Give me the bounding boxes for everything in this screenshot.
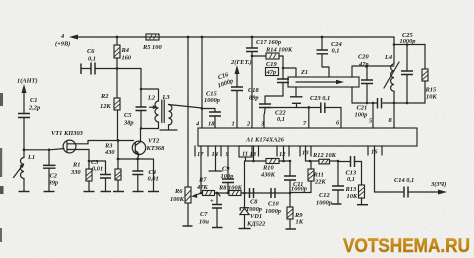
capacitor C13	[338, 156, 362, 183]
capacitor C14	[394, 177, 441, 198]
svg-text:3(3Ч): 3(3Ч)	[430, 181, 446, 188]
svg-text:1: 1	[232, 121, 235, 128]
svg-text:0,1: 0,1	[332, 48, 340, 55]
svg-text:100К: 100К	[170, 196, 185, 203]
wire: pin 17	[200, 146, 202, 193]
svg-text:C7: C7	[200, 211, 208, 218]
svg-text:VT2: VT2	[148, 138, 160, 145]
svg-text:89p: 89p	[249, 95, 259, 102]
wire: tank feed node	[117, 69, 158, 90]
node 4 (+9V) supply terminal	[55, 33, 78, 48]
capacitor C10	[265, 188, 281, 215]
svg-text:47К: 47К	[196, 184, 208, 191]
capacitor C2	[43, 150, 58, 192]
capacitor C16	[214, 70, 243, 128]
capacitor C18	[248, 87, 283, 128]
transistor VT1	[51, 130, 89, 153]
capacitor C24	[317, 37, 342, 77]
wire: pin 10	[305, 146, 307, 161]
potentiometer R6	[170, 187, 201, 226]
capacitor C17	[246, 37, 281, 128]
svg-text:R2: R2	[100, 93, 109, 100]
svg-text:C1: C1	[30, 97, 37, 104]
svg-text:1К: 1К	[296, 219, 304, 226]
svg-text:2,2p: 2,2p	[28, 105, 40, 112]
svg-text:47p: 47p	[266, 69, 277, 76]
resistor R5	[142, 34, 162, 51]
pin 11 box	[239, 146, 252, 161]
resistor R2	[100, 70, 120, 141]
resistor R8	[216, 185, 249, 196]
svg-text:L2: L2	[147, 95, 156, 102]
svg-text:L1: L1	[27, 154, 35, 161]
svg-text:VT1 КП303: VT1 КП303	[51, 130, 84, 137]
svg-text:C10: C10	[268, 201, 279, 208]
svg-text:Z1: Z1	[300, 69, 308, 76]
svg-text:100p: 100p	[221, 173, 234, 180]
svg-text:R15: R15	[425, 87, 437, 94]
wire: VT2 emitter node	[118, 158, 154, 192]
resistor R4	[114, 37, 132, 69]
svg-text:330: 330	[70, 169, 81, 176]
ground symbols left row	[19, 191, 160, 193]
svg-text:430К: 430К	[260, 172, 276, 179]
svg-text:C17 160p: C17 160p	[256, 39, 281, 46]
svg-text:0,01: 0,01	[92, 166, 103, 173]
svg-text:R13: R13	[345, 186, 357, 193]
svg-text:VD1: VD1	[250, 213, 262, 220]
svg-text:14: 14	[212, 151, 218, 158]
capacitor C22	[275, 87, 303, 123]
svg-text:0,1: 0,1	[347, 176, 355, 183]
svg-text:0,1: 0,1	[88, 56, 96, 63]
svg-text:C23 0,1: C23 0,1	[310, 95, 330, 102]
node 3 (AF out) terminal	[430, 181, 447, 195]
resistor R12	[306, 152, 340, 164]
svg-text:VOTSHEMA.RU: VOTSHEMA.RU	[343, 235, 470, 257]
ground symbols bottom row	[183, 204, 369, 229]
svg-text:R7: R7	[198, 177, 207, 184]
svg-text:2(ГЕТ.): 2(ГЕТ.)	[230, 59, 252, 66]
svg-text:C20: C20	[358, 54, 369, 61]
IC bottom pin cells	[195, 146, 382, 158]
svg-text:12: 12	[279, 151, 286, 158]
svg-text:C21: C21	[357, 105, 368, 112]
svg-text:160: 160	[122, 55, 132, 62]
svg-text:1000p: 1000p	[204, 97, 220, 104]
IC top pin numbers	[195, 117, 393, 128]
svg-text:1000p: 1000p	[400, 38, 416, 45]
resistor R10	[245, 159, 291, 179]
transformer core	[162, 100, 164, 123]
svg-text:R6: R6	[174, 188, 183, 195]
IC A1 K174XA26	[198, 128, 417, 146]
resistor R3	[104, 141, 121, 192]
wire: pin 14 ground stub	[209, 146, 222, 171]
svg-text:R11: R11	[313, 172, 324, 179]
svg-text:0,01: 0,01	[148, 176, 159, 183]
svg-text:18: 18	[208, 121, 215, 128]
capacitor C7	[199, 193, 222, 228]
capacitor C25	[394, 32, 425, 104]
transformer tuning arrow	[150, 105, 158, 109]
svg-text:100p: 100p	[355, 112, 368, 119]
wire: VT2 collector bar	[140, 127, 177, 130]
inductor L2	[147, 89, 159, 129]
svg-text:L4: L4	[384, 54, 392, 61]
capacitor C21	[355, 98, 382, 119]
svg-text:38p: 38p	[123, 120, 134, 127]
capacitor C11	[284, 160, 307, 195]
svg-text:C12: C12	[319, 192, 330, 199]
svg-text:C2: C2	[50, 173, 58, 180]
capacitor C8	[246, 188, 262, 213]
svg-text:39p: 39p	[48, 180, 59, 187]
svg-text:R8 100К: R8 100К	[218, 185, 243, 192]
wire: pin 6	[340, 108, 342, 129]
svg-text:C8: C8	[250, 199, 258, 206]
capacitor C5	[123, 88, 147, 129]
resistor R15	[422, 45, 437, 104]
capacitor C12	[316, 161, 344, 207]
node 1 (ANT) antenna terminal	[17, 78, 38, 114]
wire: pin4 feed	[201, 37, 204, 128]
svg-text:C18: C18	[248, 87, 259, 94]
svg-text:А1 К174ХА26: А1 К174ХА26	[245, 137, 285, 144]
wire: demod net	[243, 161, 290, 194]
wire: R6 feed	[187, 37, 189, 187]
diode VD1	[240, 193, 266, 229]
capacitor C15	[202, 91, 221, 129]
resistor R7	[196, 177, 217, 196]
svg-text:КТ368: КТ368	[146, 145, 166, 152]
capacitor C23	[310, 95, 330, 113]
resistor hatch marks	[87, 35, 428, 218]
svg-text:C14 0,1: C14 0,1	[394, 177, 414, 184]
inductor L3	[162, 94, 203, 130]
resistor R14	[252, 47, 293, 60]
wire: pin7 net	[265, 106, 341, 128]
svg-text:R10: R10	[262, 165, 274, 172]
svg-text:0,1: 0,1	[277, 116, 285, 123]
svg-text:1000p: 1000p	[265, 208, 281, 215]
capacitor C20	[358, 54, 373, 104]
capacitor C6	[81, 48, 118, 75]
wire: pin 8	[393, 103, 395, 128]
svg-text:4: 4	[60, 33, 64, 40]
capacitor C1	[18, 97, 40, 150]
svg-text:10u: 10u	[199, 219, 209, 226]
scan smudge left edge	[0, 93, 4, 242]
svg-text:C6: C6	[87, 48, 95, 55]
wire: Z1 output bottom	[352, 87, 425, 104]
capacitor C19	[266, 56, 290, 96]
inductor L1	[14, 150, 36, 192]
resistor R1	[70, 162, 92, 192]
wire: pin 12	[282, 146, 285, 162]
svg-text:R4: R4	[121, 47, 129, 54]
svg-text:C9: C9	[222, 166, 230, 173]
wire: VT1 drain to VT2 base	[88, 139, 134, 144]
resistor R13	[345, 162, 365, 205]
wire: input node	[23, 148, 64, 151]
svg-text:R5 100: R5 100	[142, 44, 162, 51]
resistor R9	[287, 193, 304, 229]
svg-text:R1: R1	[72, 162, 80, 169]
svg-text:1000p: 1000p	[246, 206, 262, 213]
svg-text:430: 430	[104, 149, 115, 156]
svg-text:1000p: 1000p	[291, 186, 307, 193]
capacitor C3	[91, 159, 111, 192]
svg-text:12К: 12К	[100, 103, 111, 110]
svg-text:4: 4	[195, 121, 199, 128]
filter Z1	[283, 68, 359, 87]
wire: pin 16 output	[375, 146, 404, 192]
wire: Z1 output top	[352, 65, 394, 77]
wire: VT1 source node	[88, 150, 106, 170]
svg-text:+: +	[210, 198, 214, 205]
svg-text:47p: 47p	[358, 61, 369, 68]
svg-text:КД522: КД522	[246, 221, 266, 228]
svg-text:11: 11	[242, 151, 248, 158]
svg-text:10К: 10К	[426, 94, 437, 101]
svg-text:1(АНТ): 1(АНТ)	[17, 78, 38, 85]
svg-text:(+9В): (+9В)	[55, 41, 70, 48]
node 2 (GET) terminal	[230, 59, 252, 74]
inductor L4	[384, 37, 399, 103]
wire: +9V top rail	[76, 36, 394, 39]
wire: pin 13	[253, 146, 255, 161]
capacitor C4	[132, 159, 158, 192]
watermark VOTSHEMA.RU	[343, 235, 470, 257]
svg-text:1000p: 1000p	[316, 200, 332, 207]
svg-text:R12 10К: R12 10К	[312, 152, 337, 159]
svg-text:10К: 10К	[347, 193, 358, 200]
resistor R11	[290, 161, 326, 193]
transistor VT2	[132, 128, 165, 159]
svg-text:22К: 22К	[314, 179, 326, 186]
wire: pin 5	[372, 103, 374, 128]
svg-text:R14 100К: R14 100К	[265, 47, 293, 54]
svg-text:C5: C5	[124, 112, 132, 119]
capacitor C9	[221, 146, 235, 193]
svg-text:L3: L3	[162, 94, 171, 101]
